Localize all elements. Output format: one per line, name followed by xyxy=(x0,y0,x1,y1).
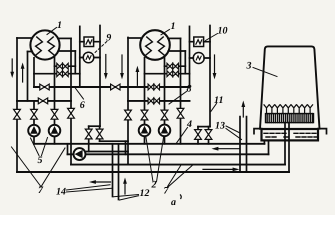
chiller 1 right zigzag coil xyxy=(48,37,56,56)
wire: hub line y=151.5 xyxy=(87,151,129,153)
wire: down pipe x=113.5 xyxy=(112,144,114,197)
label 7 (first) leaders xyxy=(12,147,66,186)
wire: header y=126.2 xyxy=(89,125,100,127)
svg-text:13: 13 xyxy=(215,121,225,132)
svg-text:12: 12 xyxy=(140,188,150,199)
wire: pipe x=128 from stub to bus y1 xyxy=(127,38,129,165)
cooling tower body (trapezoid) xyxy=(260,46,320,128)
wire: left stub of chiller 1 at y=38 xyxy=(17,37,31,39)
flow arrow down beside x=100 pipe xyxy=(105,55,107,75)
valve on drop x=198 xyxy=(195,130,202,140)
wire: chiller 2 right stub y=38.4 xyxy=(168,37,181,39)
wire: valve line y=73.7 (unit 2) xyxy=(145,73,190,75)
svg-text:4: 4 xyxy=(186,119,192,130)
wire: tower central riser x=290.4 xyxy=(288,123,290,172)
svg-text:1: 1 xyxy=(171,21,176,32)
wire: drop pipe x=71 to bus y3 xyxy=(70,38,72,164)
svg-text:5: 5 xyxy=(38,155,43,166)
label 7 (second) leaders xyxy=(168,165,193,187)
label 11 leader xyxy=(211,104,217,112)
valve on drop x=208.5 xyxy=(205,130,212,140)
label 4 leader xyxy=(177,128,188,144)
instrument circle (right unit) xyxy=(193,53,204,64)
svg-text:7: 7 xyxy=(164,186,170,197)
wire: drop x=198 to bus y1 xyxy=(197,127,199,144)
valve on pipe x=128 xyxy=(125,110,132,120)
wire: short pipe x=75.3 xyxy=(74,51,76,74)
bus y=101 left segment xyxy=(17,100,71,102)
instrument square 10 xyxy=(194,37,204,47)
instrument square 10 stubs xyxy=(190,41,211,43)
svg-text:3: 3 xyxy=(246,61,252,72)
label 8 leader xyxy=(169,92,187,105)
label 10 leader xyxy=(206,34,218,41)
bus y=101 right segment xyxy=(128,100,190,102)
svg-text:a: a xyxy=(171,197,176,208)
instrument circle stubs xyxy=(80,57,100,59)
wire: tower riser pipe x=246.5 xyxy=(246,117,248,172)
flow arrow up x=243.3 above risers xyxy=(242,106,244,117)
wire: basin outlet x=273.3 to bus y2 xyxy=(268,140,270,154)
valve on drop x=99.6 xyxy=(96,129,103,139)
label 1 leader (left unit) xyxy=(47,28,57,35)
svg-text:8: 8 xyxy=(187,84,192,95)
chiller 1 left zigzag coil xyxy=(35,37,43,56)
wire: tower central riser x=285.4 xyxy=(284,123,286,165)
flow arrow down (beside x=16 pipe) xyxy=(11,59,13,74)
valve on bus 87 at x=115.3 xyxy=(111,84,120,90)
label 6 leader xyxy=(75,88,83,99)
pump (middle pair, first) xyxy=(139,125,151,137)
wire: short pipe x=185.3 xyxy=(184,51,186,74)
wire: drop x=88.7 to bus y1 xyxy=(88,126,90,151)
svg-text:6: 6 xyxy=(80,100,85,111)
bus y1=144.3 xyxy=(34,143,264,145)
svg-text:10: 10 xyxy=(218,26,228,37)
wire: instrument right pipe x=100 xyxy=(99,26,101,127)
chiller 2 left zigzag coil xyxy=(145,37,153,56)
label 9 dashed leader xyxy=(94,42,107,54)
wire: chiller 2 bottom box right x=164.5 xyxy=(164,58,166,144)
instrument circle (left unit) xyxy=(83,52,94,63)
valve pair on y=73.7 xyxy=(57,71,68,77)
wire: chiller 1 right stub y=38.4 xyxy=(58,37,71,39)
label a curve mark xyxy=(180,195,181,200)
instrument square 9 xyxy=(84,37,94,47)
label 12 leaders xyxy=(114,195,139,201)
label 5 leaders xyxy=(31,138,48,156)
wire: up-flow stub into chiller 1 xyxy=(28,51,33,53)
wire: hub pipe x=125.5 xyxy=(125,141,127,154)
svg-text:1: 1 xyxy=(57,20,62,31)
wire: left stub of chiller 2 xyxy=(128,37,140,39)
wire: basin outlet x=264 to bus y1 xyxy=(263,140,265,143)
wire: valve line y=73.7 xyxy=(34,73,80,75)
tower fill pack (hatched) xyxy=(266,114,314,123)
flow arrow down beside x=128 pipe xyxy=(121,55,123,75)
bus y2=154.3 xyxy=(68,153,269,155)
tower spray nozzles xyxy=(264,105,313,113)
valve pair on bus 101 at x=153.8 xyxy=(148,98,159,104)
svg-text:7: 7 xyxy=(38,185,44,196)
pump (left pair, second) xyxy=(49,125,61,137)
wire: chiller 1 right stub y=51 xyxy=(58,50,75,52)
valve on bus 101 at x=43 xyxy=(38,98,47,104)
valve on pipe x=16 xyxy=(14,109,21,119)
label 2 leaders xyxy=(146,138,164,182)
valve pair on bus 87 at x=153.8 xyxy=(148,84,159,90)
flow arrow up x=125 between pipes xyxy=(124,184,126,195)
wire: header y=126.6 (unit 2) xyxy=(198,126,210,128)
instrument circle stubs (right unit) xyxy=(190,57,211,59)
wire: up pipe x=27.5 xyxy=(27,52,29,101)
wire: chiller 1 bottom box left x=34 xyxy=(33,58,35,144)
valve on pipe x=179 xyxy=(177,108,184,118)
flow arrow left y=182 xyxy=(95,181,111,183)
pump (middle pair, second) xyxy=(159,125,171,137)
valve on drop x=88.7 xyxy=(85,129,92,139)
svg-text:14: 14 xyxy=(56,186,66,197)
pump 3 on bus y2 xyxy=(74,148,86,160)
chiller circle 1 (left unit) xyxy=(30,30,59,59)
basin right lip xyxy=(318,129,327,134)
bus y=87 xyxy=(34,86,190,88)
wire: valve line y=66.2 xyxy=(55,65,76,67)
wire: drop x=208.5 to bus y1 xyxy=(208,127,210,144)
instrument square 9 stubs xyxy=(80,41,100,43)
flow arrow up (beside x=27.5 pipe) xyxy=(22,67,24,82)
bus y4=172.7 xyxy=(17,171,289,173)
wire: tower riser pipe x=240 xyxy=(239,117,241,172)
valve on pipe x=164.5 xyxy=(161,110,168,120)
wire: valve line y=66.2 (unit 2) xyxy=(165,65,186,67)
label 14 leaders xyxy=(67,185,112,192)
pump (left pair, first) xyxy=(28,125,40,137)
tower basin xyxy=(262,129,319,140)
flow arrow up x=137.4 xyxy=(136,71,138,86)
chiller circle 1 (right unit) xyxy=(140,30,170,60)
svg-text:9: 9 xyxy=(106,32,111,43)
svg-text:2: 2 xyxy=(151,180,157,191)
wire: chiller 2 right stub y=51 xyxy=(168,50,185,52)
wire: chiller 2 bottom box left x=144.5 xyxy=(144,58,146,144)
valve on pipe x=54.5 xyxy=(51,109,58,119)
wire: chiller 1 bottom box right x=54.5 xyxy=(54,58,56,144)
valve on pipe x=69 xyxy=(68,108,75,118)
wire: down pipe x=120.5 xyxy=(118,144,120,200)
svg-text:11: 11 xyxy=(214,95,223,106)
wire: link y1-y2 at x=67.5 xyxy=(67,144,69,155)
valve pair on y=66.2 (unit 2) xyxy=(167,63,178,69)
chiller 2 right zigzag coil xyxy=(158,37,166,56)
bus y3=165.5 xyxy=(71,164,285,166)
wire: left down pipe x=16 xyxy=(16,38,18,172)
flow arrow left on y=148.7 xyxy=(218,148,240,150)
flow arrow right on y=169.4 xyxy=(203,168,234,170)
wire: instrument left pipe x=79.8 xyxy=(79,26,81,87)
label 3 leader xyxy=(253,68,277,77)
wire: instrument right pipe x=210 xyxy=(209,26,211,127)
label 1 leader (right unit) xyxy=(161,30,170,35)
valve pair on y=73.7 (unit 2) xyxy=(167,71,178,77)
valve on pipe x=34 xyxy=(31,109,38,119)
wire: hub line y=141.2 xyxy=(100,140,128,142)
basin left lip xyxy=(254,129,262,134)
valve pair on y=66.2 xyxy=(57,63,68,69)
wire: drop x=99.6 to bus y1 xyxy=(99,126,101,141)
wire: instrument left pipe x=189.5 xyxy=(189,26,191,87)
basin water dashes xyxy=(264,133,317,137)
wire: drop pipe x=180.5 to bus y1 xyxy=(180,38,182,143)
flow arrow down beside x=210 pipe xyxy=(214,55,216,75)
valve on bus 87 at x=44.5 xyxy=(40,84,49,90)
label 13 leaders xyxy=(226,126,242,140)
valve on pipe x=144.5 xyxy=(141,110,148,120)
